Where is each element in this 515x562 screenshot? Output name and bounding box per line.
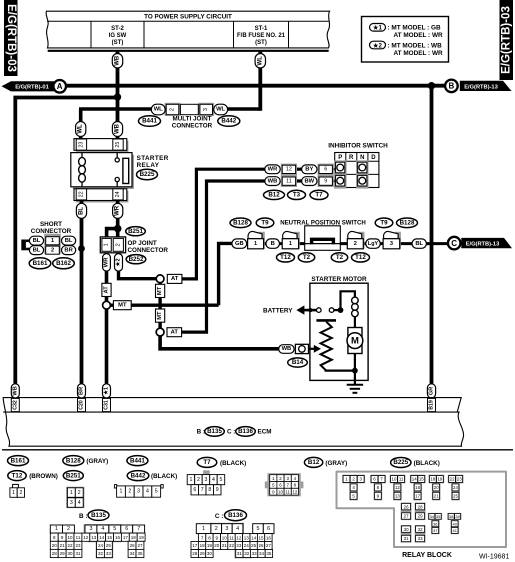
svg-text:1: 1 bbox=[202, 526, 205, 532]
svg-text:12: 12 bbox=[236, 535, 242, 540]
label WB wire color top bbox=[112, 54, 122, 69]
connector B225 view label bbox=[391, 458, 440, 468]
svg-text:B225: B225 bbox=[393, 459, 408, 466]
wire elbow into OP joint pin 1 bbox=[107, 229, 118, 238]
svg-text:STARTER: STARTER bbox=[137, 155, 169, 162]
svg-text:3: 3 bbox=[203, 108, 209, 111]
svg-text:13: 13 bbox=[91, 535, 97, 540]
svg-text:26: 26 bbox=[404, 504, 409, 509]
label MULTI JOINT CONNECTOR bbox=[172, 115, 213, 129]
svg-text:B135: B135 bbox=[207, 428, 222, 435]
svg-text:32: 32 bbox=[418, 527, 423, 532]
svg-text:C31: C31 bbox=[104, 400, 110, 410]
ground junction dot bbox=[352, 368, 358, 374]
ECM band bbox=[3, 398, 463, 447]
svg-text:RELAY: RELAY bbox=[137, 162, 160, 169]
svg-text:C32: C32 bbox=[12, 400, 18, 410]
connector flag E/G(RTB)-01 bbox=[2, 81, 55, 91]
svg-text:E/G(RTB)-13: E/G(RTB)-13 bbox=[464, 84, 498, 90]
svg-text:7: 7 bbox=[137, 526, 140, 532]
svg-text:7: 7 bbox=[201, 487, 204, 493]
svg-text:TO POWER SUPPLY CIRCUIT: TO POWER SUPPLY CIRCUIT bbox=[144, 13, 232, 20]
svg-text:(GRAY): (GRAY) bbox=[86, 458, 108, 465]
svg-text:11: 11 bbox=[399, 477, 404, 482]
neutral pin T12-1 bbox=[248, 231, 265, 248]
battery arrow bbox=[296, 305, 316, 314]
svg-text:29: 29 bbox=[60, 551, 66, 556]
starter relay connector strip bottom bbox=[74, 189, 128, 203]
svg-text:AT MODEL : WR: AT MODEL : WR bbox=[394, 32, 443, 39]
svg-text:38: 38 bbox=[449, 514, 453, 519]
power supply banner bbox=[46, 11, 329, 51]
svg-text:4: 4 bbox=[78, 500, 81, 506]
pin 3 of B442 bbox=[200, 104, 213, 114]
connector B128 oval left bbox=[230, 218, 251, 228]
svg-text:GR: GR bbox=[429, 387, 435, 395]
svg-text:STARTER MOTOR: STARTER MOTOR bbox=[311, 276, 367, 283]
svg-text:31: 31 bbox=[404, 536, 409, 541]
wire contact to coil junction bbox=[334, 309, 341, 311]
svg-text:B442: B442 bbox=[131, 472, 146, 479]
svg-text:14: 14 bbox=[251, 535, 257, 540]
connector T2 oval below left bbox=[298, 253, 314, 262]
connector T9 oval left bbox=[256, 218, 274, 228]
svg-text:B442: B442 bbox=[221, 118, 236, 125]
svg-text:2: 2 bbox=[67, 526, 70, 532]
svg-text:15: 15 bbox=[258, 535, 264, 540]
separator rule bbox=[2, 449, 513, 451]
svg-text:B252: B252 bbox=[129, 256, 144, 263]
connector T2 oval below right bbox=[331, 253, 347, 262]
svg-text:CONNECTOR: CONNECTOR bbox=[172, 122, 213, 129]
svg-text:12: 12 bbox=[286, 167, 292, 173]
svg-text:24: 24 bbox=[453, 485, 458, 490]
svg-text:27: 27 bbox=[137, 543, 143, 548]
connector T3 oval bbox=[288, 190, 306, 199]
svg-text:30: 30 bbox=[67, 551, 73, 556]
short connector pin 1 bbox=[46, 237, 60, 245]
ECM pin C32 bbox=[11, 398, 19, 411]
svg-text:30: 30 bbox=[404, 527, 409, 532]
svg-text:14: 14 bbox=[412, 477, 417, 482]
svg-text:29: 29 bbox=[418, 514, 423, 519]
svg-text:WB: WB bbox=[115, 123, 121, 134]
solenoid coil bbox=[352, 297, 359, 317]
neutral pin T12-3 bbox=[383, 231, 401, 248]
svg-text:16: 16 bbox=[115, 535, 121, 540]
svg-text:12: 12 bbox=[292, 489, 297, 494]
svg-text:25: 25 bbox=[453, 494, 458, 499]
svg-text:B :: B : bbox=[197, 429, 205, 436]
starter relay connector strip top bbox=[74, 139, 128, 153]
svg-text:2: 2 bbox=[197, 477, 200, 483]
motor M bbox=[347, 328, 363, 354]
svg-text:B128: B128 bbox=[66, 457, 81, 464]
svg-text:3: 3 bbox=[390, 241, 393, 247]
OP joint pin 1 bbox=[102, 238, 111, 251]
node A bbox=[53, 80, 66, 93]
svg-text:6: 6 bbox=[193, 487, 196, 493]
svg-text:10: 10 bbox=[67, 535, 73, 540]
svg-text:1: 1 bbox=[189, 477, 192, 483]
connector B135 pinout grid bbox=[50, 524, 145, 558]
label WB starter bbox=[279, 345, 294, 354]
wire BW9 to table bbox=[331, 180, 335, 182]
svg-text:35: 35 bbox=[266, 551, 272, 556]
svg-text:AT: AT bbox=[171, 329, 179, 335]
pin 12 bbox=[282, 165, 295, 173]
label B:B135 bbox=[79, 513, 88, 520]
svg-text:(BROWN): (BROWN) bbox=[29, 473, 58, 480]
inhibitor N column contacts bbox=[356, 160, 368, 188]
svg-text:AT: AT bbox=[171, 276, 179, 282]
svg-text:17: 17 bbox=[123, 535, 129, 540]
connector T12 oval below right bbox=[352, 253, 370, 262]
pin 11 bbox=[282, 177, 295, 185]
wire connector to plunger bbox=[309, 348, 315, 350]
svg-text:28: 28 bbox=[52, 551, 58, 556]
svg-text:35: 35 bbox=[137, 551, 143, 556]
svg-text:WR: WR bbox=[268, 167, 278, 173]
relay block cavity group 14-17 bbox=[410, 475, 426, 501]
svg-text:T9: T9 bbox=[261, 220, 269, 227]
svg-text:2: 2 bbox=[51, 247, 54, 253]
svg-text:C :: C : bbox=[215, 513, 224, 520]
connector B251 bbox=[126, 227, 146, 236]
svg-text:9: 9 bbox=[324, 178, 327, 184]
junction circle AT-MT bottom bbox=[156, 328, 164, 336]
svg-text:B441: B441 bbox=[142, 118, 157, 125]
junction dot on WB wire bbox=[114, 93, 121, 100]
connector T12 oval below left bbox=[277, 253, 295, 262]
starter motor body bbox=[310, 283, 368, 380]
svg-text:11: 11 bbox=[229, 535, 234, 540]
junction dot above OP joint connector bbox=[114, 225, 122, 233]
svg-text:(BLACK): (BLACK) bbox=[414, 460, 440, 467]
ground symbol bbox=[347, 371, 363, 393]
svg-text:6: 6 bbox=[267, 526, 270, 532]
connector B128 oval right bbox=[397, 218, 418, 228]
svg-text:22: 22 bbox=[67, 543, 73, 548]
svg-text:6: 6 bbox=[125, 526, 128, 532]
svg-text:SHORT: SHORT bbox=[40, 221, 62, 228]
neutral pin T2-2 bbox=[347, 231, 364, 248]
svg-text:20: 20 bbox=[214, 543, 220, 548]
svg-text:T12: T12 bbox=[12, 472, 23, 479]
svg-text:18: 18 bbox=[430, 477, 435, 482]
label WL above relay pin 23 bbox=[76, 122, 86, 137]
pin 25 bbox=[113, 139, 123, 150]
pin 24 bbox=[113, 189, 123, 200]
svg-text:BATTERY: BATTERY bbox=[263, 307, 293, 314]
relay block cavity 32-33 bbox=[415, 525, 426, 543]
label B:B135 C:B136 ECM bbox=[197, 429, 205, 436]
svg-text:2: 2 bbox=[19, 490, 22, 496]
relay block cavity 38-41 bbox=[447, 513, 461, 534]
connector B442 view label bbox=[127, 471, 177, 481]
svg-text:B128: B128 bbox=[400, 220, 415, 227]
relay block cavity 30-31 bbox=[401, 525, 412, 543]
solenoid contact circles bbox=[317, 308, 334, 313]
ECM pin C31 bbox=[103, 398, 111, 411]
connector T7 pinout bbox=[187, 470, 225, 495]
relay block cavity group 10-13 bbox=[390, 475, 406, 501]
page tab E/G(RTB)-03 left bbox=[4, 0, 18, 76]
svg-text:BW: BW bbox=[304, 178, 314, 184]
svg-text:(GRAY): (GRAY) bbox=[325, 460, 347, 467]
label BR bottom bbox=[78, 384, 86, 398]
svg-text:22: 22 bbox=[229, 543, 235, 548]
svg-text:B128: B128 bbox=[233, 220, 248, 227]
svg-text:27: 27 bbox=[266, 543, 272, 548]
label AT top bbox=[167, 274, 182, 283]
svg-text:B: B bbox=[271, 241, 275, 247]
wire motor to ground node bbox=[354, 354, 356, 371]
svg-text:OP JOINT: OP JOINT bbox=[128, 240, 157, 247]
short connector pin plate bbox=[44, 234, 61, 254]
svg-text:B251: B251 bbox=[128, 228, 143, 235]
label BL row1 left bbox=[29, 236, 43, 245]
label WL wire color top bbox=[255, 54, 265, 69]
svg-text:RELAY BLOCK: RELAY BLOCK bbox=[402, 552, 452, 559]
junction circle AT-MT top bbox=[156, 275, 164, 283]
svg-text:22: 22 bbox=[450, 477, 455, 482]
svg-text:21: 21 bbox=[222, 543, 228, 548]
starter connector symbol B14 bbox=[295, 344, 308, 353]
connector T12 view label bbox=[8, 471, 58, 481]
svg-text:ST-1: ST-1 bbox=[255, 26, 268, 32]
svg-text:3: 3 bbox=[204, 477, 207, 483]
wire GR from node B to ECM B19 bbox=[430, 86, 434, 399]
svg-text:C :: C : bbox=[227, 429, 235, 436]
svg-text:B251: B251 bbox=[66, 472, 81, 479]
svg-text:17: 17 bbox=[192, 543, 198, 548]
svg-text:2: 2 bbox=[115, 243, 121, 246]
label WR wire color bbox=[113, 203, 123, 218]
svg-text:B12: B12 bbox=[308, 459, 320, 466]
svg-text:32: 32 bbox=[98, 551, 104, 556]
svg-text:★2: ★2 bbox=[372, 42, 383, 49]
label GB bbox=[232, 239, 247, 248]
svg-text:32: 32 bbox=[244, 551, 250, 556]
svg-text:B162: B162 bbox=[56, 260, 71, 267]
label MT right of circle bbox=[113, 301, 131, 310]
svg-text:1: 1 bbox=[289, 241, 292, 247]
svg-text:(ST): (ST) bbox=[112, 40, 124, 46]
svg-text:E/G(RTB)-03: E/G(RTB)-03 bbox=[5, 4, 17, 72]
relay block cavity group 6-9 bbox=[370, 475, 386, 501]
svg-text:1: 1 bbox=[104, 243, 110, 246]
svg-text:P: P bbox=[338, 155, 342, 161]
svg-text:24: 24 bbox=[244, 543, 250, 548]
svg-text:4: 4 bbox=[212, 477, 215, 483]
wire neutral switch row bbox=[244, 242, 448, 245]
svg-text:18: 18 bbox=[200, 543, 206, 548]
inhibitor pin plate right bbox=[318, 164, 334, 187]
wire *2 elbow to AT junction bbox=[119, 271, 157, 279]
node B junction bbox=[428, 82, 435, 89]
svg-text:B136: B136 bbox=[228, 512, 243, 519]
label MT lower bbox=[156, 309, 165, 322]
connector T7 oval bbox=[310, 190, 328, 199]
svg-text:19: 19 bbox=[139, 535, 145, 540]
wire *1 down to ECM C31 bbox=[105, 309, 109, 399]
svg-text:ECM: ECM bbox=[258, 429, 272, 436]
svg-text:1: 1 bbox=[55, 526, 58, 532]
connector B161 view label bbox=[8, 456, 29, 466]
svg-text:F/B FUSE NO. 21: F/B FUSE NO. 21 bbox=[237, 33, 286, 39]
connector B252 bbox=[126, 255, 146, 264]
label WR inhibitor bbox=[265, 165, 280, 174]
svg-text:1: 1 bbox=[254, 241, 257, 247]
svg-text:2: 2 bbox=[170, 108, 176, 111]
svg-text:23: 23 bbox=[236, 543, 242, 548]
svg-text:BL: BL bbox=[33, 247, 41, 253]
svg-text:B161: B161 bbox=[33, 260, 48, 267]
svg-text:9: 9 bbox=[216, 487, 219, 493]
svg-text:: MT MODEL : WB: : MT MODEL : WB bbox=[388, 42, 443, 49]
label GR bbox=[427, 384, 435, 398]
svg-text:MT: MT bbox=[157, 286, 163, 295]
svg-text:★2: ★2 bbox=[115, 258, 122, 266]
svg-text:B :: B : bbox=[79, 513, 88, 520]
svg-text:31: 31 bbox=[75, 551, 81, 556]
label BY bbox=[302, 165, 317, 174]
svg-text:BR: BR bbox=[79, 387, 85, 395]
junction dot at coil branch bbox=[338, 307, 344, 313]
svg-text:B136: B136 bbox=[238, 428, 253, 435]
relay block cavity group 22-25 bbox=[448, 475, 464, 501]
svg-text:GB: GB bbox=[235, 241, 244, 247]
svg-text:WL: WL bbox=[257, 56, 263, 66]
multi joint connector B441 B442 bbox=[165, 103, 215, 116]
svg-text:2: 2 bbox=[128, 489, 131, 495]
wire WR below OP joint pin 1 bbox=[105, 253, 109, 302]
svg-text:10: 10 bbox=[278, 489, 283, 494]
svg-text:13: 13 bbox=[395, 494, 400, 499]
label WB above relay pin 25 bbox=[112, 122, 122, 137]
label SHORT CONNECTOR bbox=[31, 221, 72, 235]
svg-text:11: 11 bbox=[286, 178, 292, 184]
svg-text:CONNECTOR: CONNECTOR bbox=[128, 247, 169, 254]
svg-text:13: 13 bbox=[244, 535, 250, 540]
label BL wire color bbox=[76, 203, 86, 218]
svg-text:(BLACK): (BLACK) bbox=[220, 460, 246, 467]
label WL right of joint connector bbox=[214, 104, 228, 115]
svg-text:(BLACK): (BLACK) bbox=[151, 473, 177, 480]
pin 22 bbox=[76, 189, 86, 200]
connector B14 oval bbox=[288, 358, 308, 367]
pin 6 bbox=[319, 165, 332, 173]
connector B441 bbox=[139, 116, 161, 127]
wire plunger bottom to motor ground bbox=[325, 370, 355, 372]
label AT on WR wire bbox=[102, 283, 111, 296]
svg-text:AT: AT bbox=[104, 286, 110, 294]
svg-text:22: 22 bbox=[78, 191, 84, 197]
label *2 below OP joint bbox=[115, 254, 123, 272]
svg-text:WR: WR bbox=[104, 257, 110, 267]
svg-text:16: 16 bbox=[415, 485, 420, 490]
svg-text:BL: BL bbox=[79, 207, 85, 215]
svg-text:ST-2: ST-2 bbox=[111, 26, 124, 32]
svg-text:R: R bbox=[349, 155, 354, 161]
svg-text:10: 10 bbox=[392, 477, 397, 482]
svg-text:B225: B225 bbox=[140, 171, 155, 178]
svg-text:8: 8 bbox=[208, 487, 211, 493]
svg-text:34: 34 bbox=[259, 551, 265, 556]
relay block cavity 26-27 bbox=[401, 503, 412, 521]
connector B251 pinout bbox=[66, 487, 84, 508]
connector T7 view label bbox=[197, 457, 246, 467]
svg-text:INHIBITOR SWITCH: INHIBITOR SWITCH bbox=[328, 142, 388, 149]
svg-text:33: 33 bbox=[418, 536, 423, 541]
connector T9 oval right bbox=[375, 218, 393, 228]
svg-text:4: 4 bbox=[101, 526, 104, 532]
OP joint pin 2 bbox=[113, 238, 123, 251]
svg-text:5: 5 bbox=[257, 526, 260, 532]
label MT upper bbox=[156, 284, 165, 297]
svg-text:3: 3 bbox=[70, 500, 73, 506]
battery terminal dot bbox=[308, 308, 312, 312]
starter relay body bbox=[71, 153, 134, 189]
svg-text:T7: T7 bbox=[203, 459, 211, 466]
wire WB from ST-2 down to relay pin 25 bbox=[116, 52, 120, 140]
svg-text:16: 16 bbox=[266, 535, 272, 540]
svg-text:23: 23 bbox=[457, 477, 462, 482]
svg-text:3: 3 bbox=[225, 526, 228, 532]
svg-text:MT: MT bbox=[118, 302, 127, 308]
wire BY6 to table bbox=[331, 168, 335, 170]
node C bbox=[448, 237, 461, 250]
svg-text:12: 12 bbox=[395, 485, 400, 490]
connector B162 bbox=[53, 258, 75, 269]
page tab E/G(RTB)-03 right bbox=[500, 0, 514, 80]
svg-text:MT: MT bbox=[157, 311, 163, 320]
svg-text:1: 1 bbox=[12, 490, 15, 496]
svg-text:21: 21 bbox=[60, 543, 66, 548]
svg-text:30: 30 bbox=[207, 551, 213, 556]
wire branch left to ECM C32 bbox=[15, 98, 117, 400]
connector B441 view label bbox=[127, 456, 148, 466]
connector C136 pinout grid bbox=[191, 523, 274, 559]
connector B12 pinout bbox=[265, 473, 304, 496]
wire elbow down to relay pin 23 bbox=[79, 109, 83, 140]
svg-text:LgY: LgY bbox=[368, 241, 379, 247]
svg-text:C: C bbox=[451, 239, 457, 248]
svg-text:1: 1 bbox=[51, 238, 54, 244]
neutral position switch body bbox=[305, 226, 341, 251]
relay block cavity group 18-21 bbox=[429, 475, 445, 501]
svg-text:B19: B19 bbox=[429, 400, 435, 410]
wire MT horizontal bbox=[110, 304, 218, 307]
svg-text:3: 3 bbox=[90, 526, 93, 532]
svg-text:5: 5 bbox=[219, 477, 222, 483]
label WB bottom bbox=[11, 384, 19, 398]
svg-text:E/G(RTB)-01: E/G(RTB)-01 bbox=[15, 85, 49, 91]
connector B12 view label bbox=[304, 457, 347, 467]
connector flag E/G(RTB)-13 at B bbox=[460, 81, 512, 91]
wire MT chain vertical bbox=[158, 280, 161, 331]
svg-text:B12: B12 bbox=[268, 192, 280, 199]
relay block cavity 28-29 bbox=[415, 503, 426, 521]
label LgY bbox=[366, 239, 381, 248]
label B bbox=[266, 239, 280, 248]
svg-text:15: 15 bbox=[419, 477, 424, 482]
wire WB11 to BW9 bbox=[295, 179, 305, 182]
junction circle MT left bbox=[103, 301, 111, 309]
legend note *1 *2 model table bbox=[362, 17, 449, 63]
svg-text:: MT MODEL : GB: : MT MODEL : GB bbox=[388, 25, 442, 32]
